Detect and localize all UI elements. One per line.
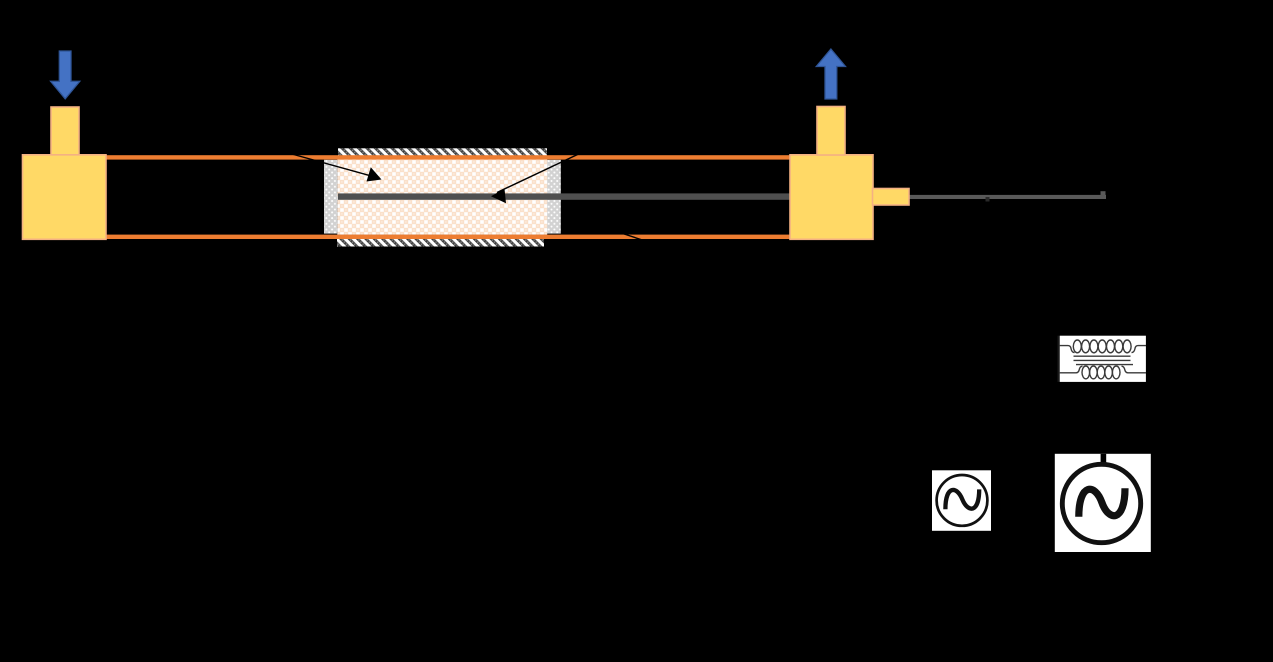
gas inlet arrow (blue, down)	[51, 51, 80, 99]
AC source V2 (large) white box	[1055, 454, 1151, 552]
transformer T1 windings and core	[1060, 340, 1146, 379]
quartz tube wall top (orange)	[106, 155, 791, 159]
AC source V1 sine	[945, 489, 979, 509]
insulation end plug left (grey dotted)	[324, 160, 337, 234]
gas inlet port (yellow)	[51, 107, 79, 155]
AC source V2 circle	[1062, 464, 1140, 542]
furnace heater hatched band bottom	[337, 239, 544, 247]
black notch at right end of bottom hatch	[544, 239, 548, 247]
gas outlet arrow (blue, up)	[816, 49, 845, 99]
thermocouple rod thin segment right	[909, 195, 1106, 199]
gas outlet port (yellow)	[817, 107, 845, 156]
tick at rod right end	[1101, 191, 1106, 195]
gas outlet end cap block (yellow)	[790, 155, 873, 240]
AC source V2 top lead stub	[1101, 454, 1107, 463]
furnace heater hatched band top	[338, 148, 547, 155]
insulation end plug right (grey dotted)	[547, 160, 561, 234]
transformer T1 left vertical wire	[1058, 336, 1060, 382]
AC source V2 sine	[1079, 488, 1125, 517]
leader arrow to furnace interior	[272, 149, 382, 182]
thermocouple side port (yellow)	[873, 189, 910, 206]
furnace interior fill (peach confetti)	[337, 159, 547, 235]
gas inlet end cap block (yellow)	[23, 155, 107, 240]
AC source V1 circle	[937, 475, 988, 526]
leader line to bottom tube wall	[606, 228, 662, 247]
tick on rod at wire junction	[986, 197, 990, 202]
quartz tube wall bottom (orange)	[106, 235, 791, 239]
leader arrow to thermocouple rod	[491, 142, 604, 203]
AC source V1 (small) white box	[932, 470, 991, 531]
transformer T1 white box	[1060, 336, 1146, 382]
thermocouple rod main segment	[338, 193, 909, 199]
